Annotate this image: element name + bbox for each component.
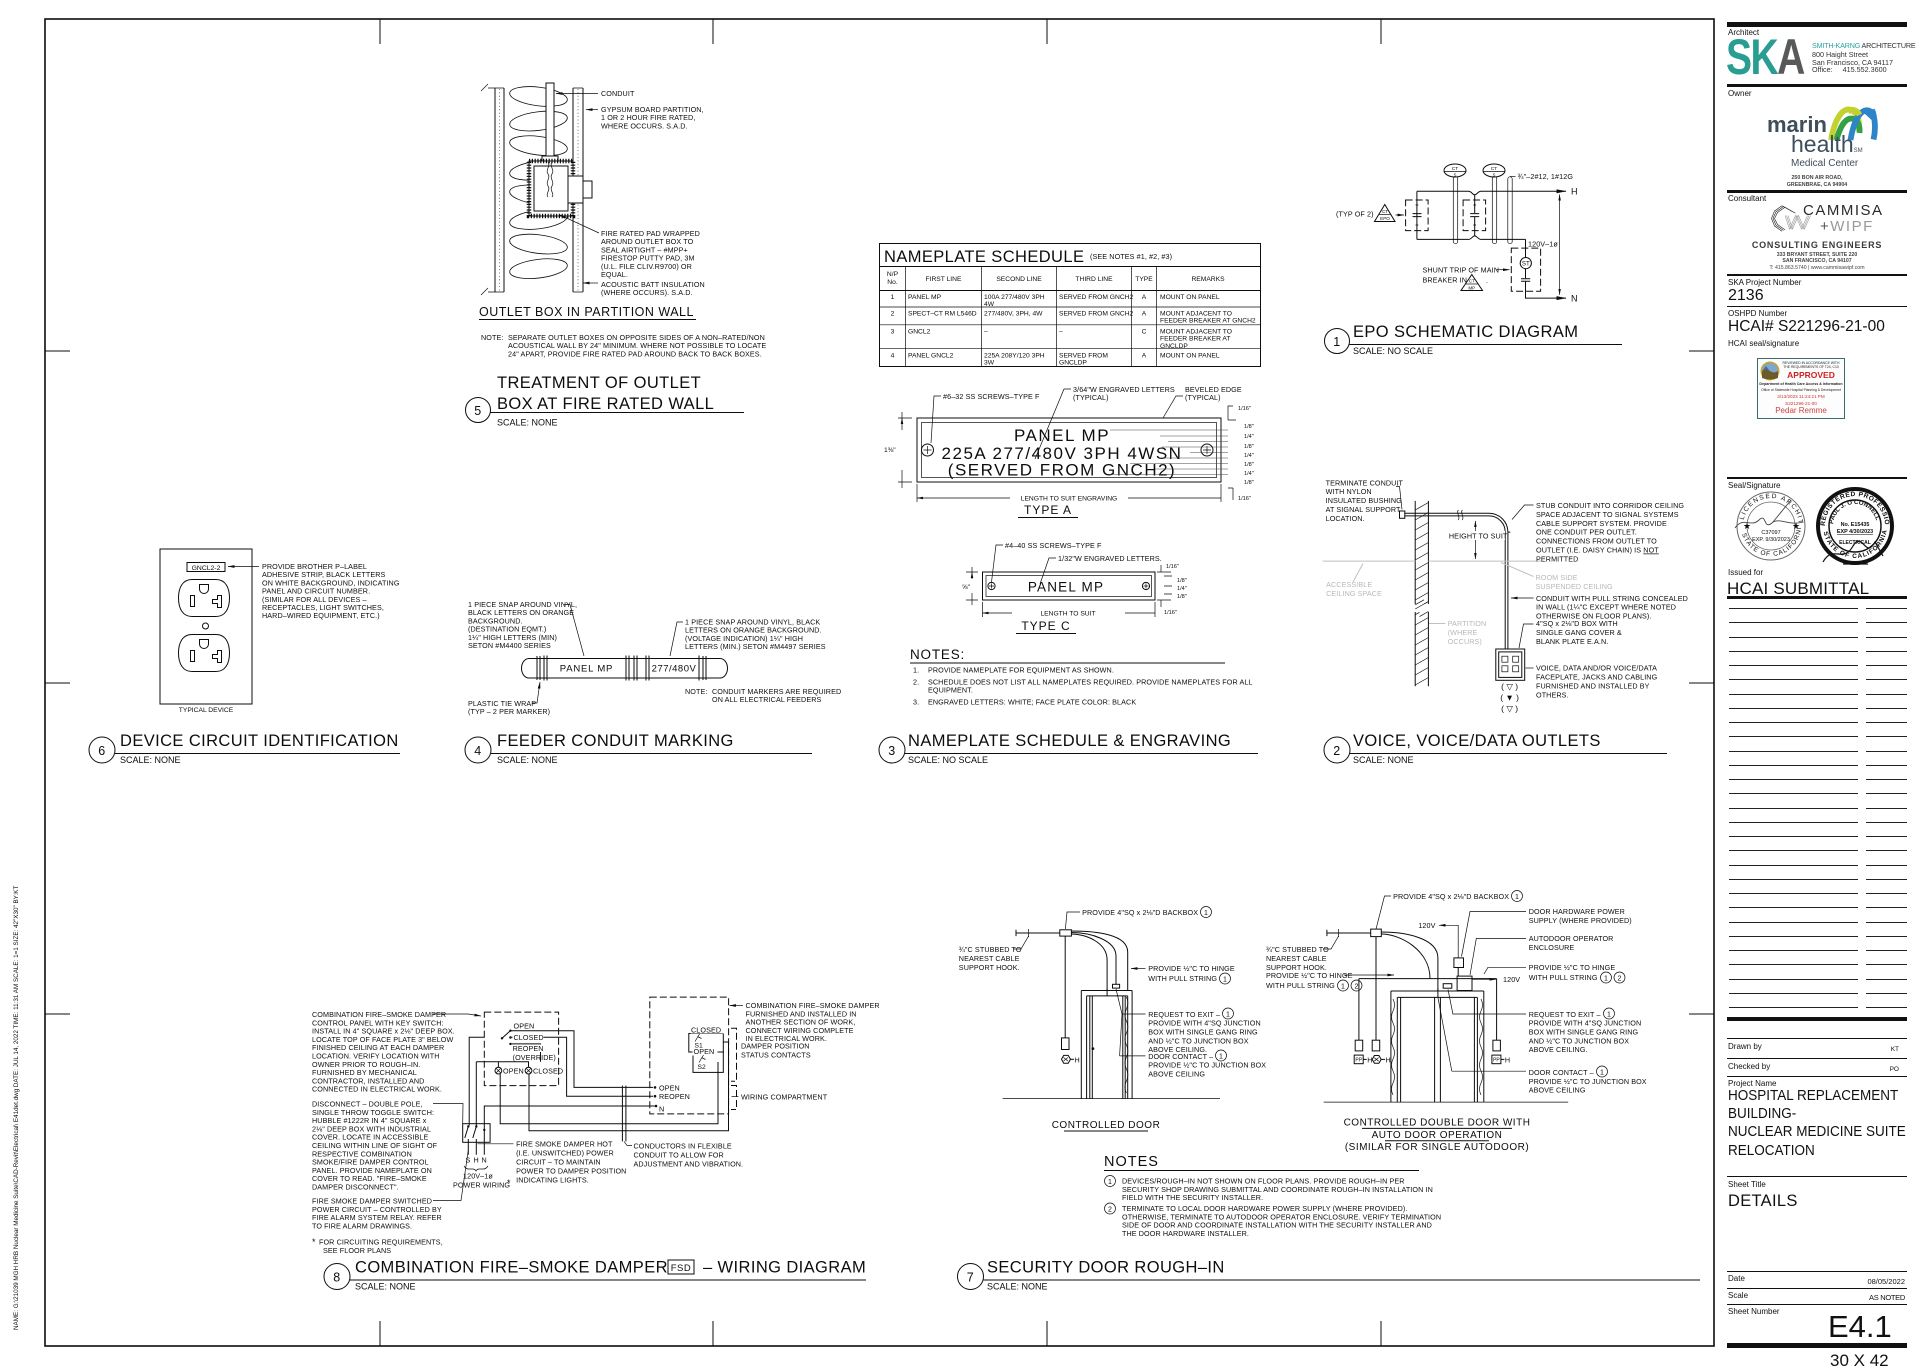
svg-text:CONNECTIONS FROM OUTLET TO: CONNECTIONS FROM OUTLET TO — [1536, 537, 1657, 546]
svg-text:WITH PULL STRING: WITH PULL STRING — [1529, 973, 1598, 982]
revision rows — [1725, 0, 1909, 1]
svg-text:PROVIDE WITH 4"SQ JUNCTION: PROVIDE WITH 4"SQ JUNCTION — [1148, 1019, 1261, 1028]
svg-text:SCALE: NONE: SCALE: NONE — [497, 418, 558, 428]
svg-text:EPO: EPO — [1380, 216, 1390, 221]
disconnect box — [463, 1124, 490, 1143]
svg-text:(SEE NOTES #1, #2, #3): (SEE NOTES #1, #2, #3) — [1090, 252, 1172, 261]
svg-text:225A 208Y/120 3PH: 225A 208Y/120 3PH — [984, 353, 1045, 360]
wire to N — [1526, 281, 1567, 298]
svg-text:FSD: FSD — [671, 1263, 692, 1274]
svg-text:SCHEDULE DOES NOT LIST ALL NAM: SCHEDULE DOES NOT LIST ALL NAMEPLATES RE… — [928, 678, 1253, 687]
sheet title line — [1727, 1176, 1907, 1177]
svg-text:– WIRING DIAGRAM: – WIRING DIAGRAM — [703, 1259, 866, 1277]
security note 2 — [1105, 1203, 1116, 1214]
svg-text:¾"C STUBBED TO: ¾"C STUBBED TO — [1266, 945, 1329, 954]
wire down to reader — [1064, 936, 1066, 1038]
ST coil — [1520, 258, 1531, 269]
drawn by — [1728, 1042, 1762, 1051]
CT bell symbol 2 — [1483, 164, 1505, 178]
svg-text:( ▼ ): ( ▼ ) — [1500, 693, 1519, 703]
conduit drop from CT 2 — [1492, 177, 1496, 244]
engineer seal stamp — [1813, 484, 1897, 568]
svg-text:ABOVE CEILING: ABOVE CEILING — [1148, 1070, 1205, 1079]
key switch reopen contact — [509, 1043, 511, 1045]
svg-text:WITH NYLON: WITH NYLON — [1326, 487, 1372, 496]
svg-text:100A 277/480V 3PH: 100A 277/480V 3PH — [984, 294, 1045, 301]
svg-text:NAMEPLATE SCHEDULE: NAMEPLATE SCHEDULE — [884, 248, 1084, 266]
svg-text:ROOM SIDE: ROOM SIDE — [1536, 573, 1578, 582]
conduit — [542, 83, 558, 162]
svg-text:VOICE, VOICE/DATA OUTLETS: VOICE, VOICE/DATA OUTLETS — [1353, 732, 1601, 750]
svg-text:#4–40 SS SCREWS–TYPE F: #4–40 SS SCREWS–TYPE F — [1005, 541, 1102, 550]
ceiling line right (gray) — [1428, 560, 1544, 562]
gypsum board right layer — [573, 88, 583, 292]
schedule table frame — [880, 244, 1261, 367]
svg-text:BOX AT FIRE RATED WALL: BOX AT FIRE RATED WALL — [497, 395, 714, 413]
border fold tick right 1 — [1689, 350, 1714, 352]
svg-text:WITH PULL STRING: WITH PULL STRING — [1266, 981, 1335, 990]
svg-text:2: 2 — [1618, 975, 1622, 982]
EPO pushbutton station 1 (dashed box) — [1406, 200, 1429, 231]
svg-text:ST: ST — [1522, 261, 1530, 268]
DETAIL 4 : FEEDER CONDUIT MARKING — [465, 600, 841, 765]
detail 1 bubble — [1325, 329, 1350, 354]
svg-text:1/16": 1/16" — [1238, 496, 1251, 502]
svg-text:2.: 2. — [913, 678, 919, 687]
svg-text:TERMINATE CONDUIT: TERMINATE CONDUIT — [1326, 478, 1404, 487]
svg-text:¾"–2#12, 1#12G: ¾"–2#12, 1#12G — [1518, 172, 1574, 181]
svg-text:SCALE: NONE: SCALE: NONE — [1353, 755, 1414, 765]
svg-text:(WHERE OCCURS). S.A.D.: (WHERE OCCURS). S.A.D. — [601, 288, 693, 297]
svg-text:A: A — [1142, 294, 1147, 301]
ska project number label — [1728, 278, 1801, 287]
svg-text:A: A — [1142, 353, 1147, 360]
svg-text:6: 6 — [98, 744, 105, 758]
project number 2136 — [1728, 287, 1764, 305]
type A right fraction dims — [1238, 406, 1254, 502]
svg-text:(I.E. UNSWITCHED) POWER: (I.E. UNSWITCHED) POWER — [516, 1149, 614, 1158]
hinge pull box — [1113, 984, 1120, 988]
type C right fraction dims — [1164, 564, 1187, 616]
detail 6 bubble — [89, 737, 115, 763]
svg-text:GNCLDP: GNCLDP — [1160, 343, 1188, 350]
leader door contact right — [1452, 1070, 1526, 1072]
svg-text:4: 4 — [891, 353, 895, 360]
svg-text:FIRST LINE: FIRST LINE — [926, 276, 962, 283]
leader rex right — [1448, 990, 1526, 1015]
svg-text:SECOND LINE: SECOND LINE — [996, 276, 1042, 283]
DETAIL 3 : NAMEPLATE SCHEDULE & ENGRAVING — [879, 244, 1261, 766]
plastic tie wrap left — [537, 656, 540, 680]
wall top edge caps — [481, 84, 583, 91]
H wire (top) — [1417, 190, 1566, 192]
N wire long — [484, 1106, 654, 1155]
svg-text:CONDUIT TO ALLOW FOR: CONDUIT TO ALLOW FOR — [634, 1150, 724, 1159]
svg-text:1/16": 1/16" — [1238, 406, 1251, 412]
leader door contact — [1120, 1055, 1146, 1057]
svg-text:AUTODOOR OPERATOR: AUTODOOR OPERATOR — [1529, 934, 1614, 943]
svg-text:1: 1 — [1600, 1069, 1604, 1076]
120V feed left arrow — [1439, 925, 1458, 958]
svg-text:8: 8 — [333, 1271, 340, 1285]
svg-text:OCCURS): OCCURS) — [1448, 637, 1482, 646]
EPO contact 2 wire — [1474, 195, 1476, 236]
bottom bar — [1727, 1343, 1907, 1348]
damper dashed enclosure — [650, 997, 729, 1114]
svg-text:ENCLOSURE: ENCLOSURE — [1529, 943, 1575, 952]
svg-text:SINGLE GANG COVER &: SINGLE GANG COVER & — [1536, 628, 1622, 637]
svg-text:1/16": 1/16" — [1166, 564, 1179, 570]
leader switched power — [433, 1150, 468, 1201]
leader to voltage label — [670, 622, 683, 656]
DETAIL 7 : SECURITY DOOR ROUGH-IN — [958, 891, 1701, 1292]
svg-text:120V: 120V — [1503, 975, 1520, 984]
svg-text:1/16": 1/16" — [1164, 610, 1177, 616]
svg-text:TO FIRE ALARM DRAWINGS.: TO FIRE ALARM DRAWINGS. — [312, 1221, 412, 1230]
title block top bar — [1727, 22, 1907, 27]
leader combination damper — [730, 1005, 744, 1007]
svg-text:2: 2 — [1108, 1206, 1112, 1213]
type C length dim — [983, 602, 1156, 617]
svg-text:1: 1 — [1333, 335, 1340, 349]
svg-text:EXP. 9/30/2023: EXP. 9/30/2023 — [1752, 537, 1790, 543]
svg-text:CIRCUIT – TO MAINTAIN: CIRCUIT – TO MAINTAIN — [516, 1158, 601, 1167]
sheet size — [1830, 1351, 1889, 1371]
svg-text:¾"C STUBBED TO: ¾"C STUBBED TO — [959, 945, 1022, 954]
svg-text:1: 1 — [1515, 894, 1519, 901]
partition wall hatched — [1415, 501, 1428, 686]
S1 contact box — [689, 1034, 724, 1053]
conduit elbow down — [1489, 513, 1510, 649]
outlet box — [1496, 649, 1525, 680]
svg-text:MOUNT ADJACENT TO: MOUNT ADJACENT TO — [1160, 311, 1232, 318]
svg-text:4W: 4W — [984, 301, 995, 308]
svg-text:7: 7 — [967, 1271, 974, 1285]
seal/signature line — [1727, 477, 1907, 479]
brace under SHN — [464, 1166, 488, 1171]
homerun label 3/4"-2#12, 1#12G — [1510, 176, 1516, 178]
svg-text:GNCL2-2: GNCL2-2 — [192, 565, 221, 572]
height to suit dim — [1474, 521, 1476, 559]
svg-text:1.: 1. — [913, 666, 919, 675]
svg-text:SPECT–CT RM L546D: SPECT–CT RM L546D — [908, 311, 977, 318]
svg-text:N: N — [1571, 294, 1578, 304]
leader: gypsum board — [586, 109, 598, 111]
bottom wire — [1417, 238, 1526, 240]
flexible conduit — [622, 1086, 626, 1142]
cammisa logo mark — [1770, 202, 1812, 235]
svg-text:NAMEPLATE SCHEDULE & ENGRAVING: NAMEPLATE SCHEDULE & ENGRAVING — [908, 732, 1231, 750]
svg-text:277/480V, 3PH, 4W: 277/480V, 3PH, 4W — [984, 311, 1043, 318]
sheet title label — [1728, 1180, 1766, 1189]
svg-text:INSULATED BUSHING: INSULATED BUSHING — [1326, 496, 1403, 505]
svg-text:1: 1 — [1226, 1011, 1230, 1018]
svg-text:EPO SCHEMATIC DIAGRAM: EPO SCHEMATIC DIAGRAM — [1353, 323, 1578, 341]
architect firm name — [1812, 41, 1915, 50]
S2 contact box — [693, 1052, 723, 1072]
svg-text:1⅜": 1⅜" — [884, 447, 896, 454]
svg-text:ON ALL ELECTRICAL FEEDERS: ON ALL ELECTRICAL FEEDERS — [712, 695, 822, 704]
nameplate type C plate — [983, 572, 1156, 600]
svg-text:H: H — [1505, 1055, 1510, 1064]
svg-text:REOPEN: REOPEN — [659, 1092, 690, 1101]
svg-text:NAME: G:\21039 MGH HRB Nuclear: NAME: G:\21039 MGH HRB Nuclear Medicine … — [13, 886, 20, 1330]
table title row line — [880, 266, 1261, 268]
svg-text:LENGTH TO SUIT ENGRAVING: LENGTH TO SUIT ENGRAVING — [1021, 496, 1118, 503]
svg-text:MOUNT ADJACENT TO: MOUNT ADJACENT TO — [1160, 329, 1232, 336]
svg-text:2: 2 — [891, 311, 895, 318]
leader 4sq box — [1519, 624, 1534, 648]
svg-text:BOX WITH SINGLE GANG RING: BOX WITH SINGLE GANG RING — [1148, 1028, 1258, 1037]
type A engraving height leader lines — [1110, 430, 1228, 475]
date line — [1727, 1271, 1907, 1272]
seal/signature label — [1728, 481, 1780, 490]
backbox wire to cr — [1375, 937, 1377, 1041]
svg-text:MOUNT ON PANEL: MOUNT ON PANEL — [1160, 294, 1220, 301]
svg-text:.: . — [1486, 278, 1488, 285]
wire down to shunt trip — [1525, 239, 1527, 257]
svg-text:FIRE SMOKE DAMPER HOT: FIRE SMOKE DAMPER HOT — [516, 1140, 613, 1149]
svg-text:DOOR CONTACT –: DOOR CONTACT – — [1529, 1068, 1594, 1077]
door frame right jamb — [1128, 991, 1132, 1099]
svg-text:#6–32 SS SCREWS–TYPE F: #6–32 SS SCREWS–TYPE F — [943, 392, 1040, 401]
svg-text:INDICATING LIGHTS.: INDICATING LIGHTS. — [516, 1175, 589, 1184]
wire below ST — [1525, 269, 1527, 279]
backbox wire to door top — [1381, 932, 1438, 991]
left pp drop — [1358, 979, 1360, 1041]
svg-text:PROVIDE ½"C TO HINGE: PROVIDE ½"C TO HINGE — [1148, 964, 1235, 973]
switched wire disconnect to lights — [475, 1062, 477, 1126]
svg-text:SCALE: NONE: SCALE: NONE — [987, 1282, 1048, 1292]
EPO contact 2 — [1470, 214, 1479, 217]
long wire bottom 2 — [529, 1042, 729, 1131]
svg-text:CT: CT — [1491, 166, 1497, 172]
svg-text:H: H — [1571, 187, 1578, 197]
svg-text:OPEN: OPEN — [659, 1083, 680, 1092]
svg-text:OTHERS.: OTHERS. — [1536, 690, 1569, 699]
detail 3 bubble — [879, 737, 905, 763]
hinge squiggle — [1125, 997, 1128, 1093]
S1 closed switch — [691, 1026, 725, 1034]
svg-text:CT: CT — [1382, 209, 1388, 214]
DETAIL 8 : COMBINATION FIRE-SMOKE DAMPER WIRING DIAGRAM — [312, 997, 880, 1291]
leader to ST box — [1497, 269, 1510, 271]
indicator light open — [495, 1066, 524, 1075]
svg-text:LENGTH TO SUIT: LENGTH TO SUIT — [1040, 611, 1095, 618]
svg-text:SEE FLOOR PLANS: SEE FLOOR PLANS — [323, 1246, 391, 1255]
conduit stub to cable hook — [1016, 930, 1060, 936]
svg-text:EXP 4/30/2023: EXP 4/30/2023 — [1837, 529, 1873, 535]
svg-text:N: N — [482, 1156, 487, 1165]
consultant label — [1728, 194, 1766, 203]
rex tick at door top — [1106, 989, 1108, 996]
svg-text:N/P: N/P — [887, 271, 899, 278]
svg-text:–: – — [984, 329, 988, 336]
svg-text:STUB CONDUIT INTO CORRIDOR CEI: STUB CONDUIT INTO CORRIDOR CEILING — [1536, 501, 1684, 510]
type A screw left — [922, 444, 934, 456]
horizontal conduit at structure — [1405, 513, 1489, 516]
svg-text:No. E15435: No. E15435 — [1841, 522, 1870, 528]
border fold tick left 2 — [45, 682, 70, 684]
shunt trip dashed box — [1511, 248, 1540, 291]
svg-text:*: * — [312, 1237, 316, 1247]
drawn by top line — [1727, 1038, 1907, 1039]
svg-text:No.: No. — [887, 279, 898, 286]
svg-text:4: 4 — [474, 744, 481, 758]
svg-text:SERVED FROM GNCH2: SERVED FROM GNCH2 — [1059, 294, 1133, 301]
svg-text:1: 1 — [1604, 975, 1608, 982]
rex connector right — [1443, 984, 1452, 989]
border fold tick top 2 — [712, 19, 714, 44]
svg-text:3: 3 — [891, 329, 895, 336]
svg-text:1: 1 — [1108, 1179, 1112, 1186]
pp device left — [1355, 1040, 1363, 1051]
svg-text:1/8": 1/8" — [1177, 578, 1187, 584]
svg-text:CT: CT — [1452, 166, 1458, 172]
svg-text:WIRING COMPARTMENT: WIRING COMPARTMENT — [741, 1093, 828, 1102]
marker: panel mp label — [544, 656, 629, 681]
door hardware power supply box — [1454, 958, 1464, 968]
key switch arm — [502, 1031, 510, 1038]
conduit break on vertical — [1503, 665, 1513, 670]
svg-text:S: S — [1493, 173, 1496, 178]
leader backbox — [1065, 912, 1080, 929]
svg-text:CONTROLLED DOOR: CONTROLLED DOOR — [1052, 1120, 1161, 1131]
svg-text:PANEL GNCL2: PANEL GNCL2 — [908, 353, 954, 360]
svg-text:CONTROLLED DOUBLE DOOR WITH: CONTROLLED DOUBLE DOOR WITH — [1344, 1117, 1531, 1128]
EPO contact 1 — [1413, 214, 1422, 217]
leader terminate conduit — [1396, 487, 1402, 510]
type C screw left — [988, 582, 995, 589]
consultant section bar — [1727, 190, 1907, 193]
hinge squiggle left jamb — [1392, 999, 1395, 1095]
svg-text:A: A — [1142, 311, 1147, 318]
svg-text:ADJUSTMENT AND VIBRATION.: ADJUSTMENT AND VIBRATION. — [634, 1159, 744, 1168]
svg-text:PROVIDE ½"C TO JUNCTION BOX: PROVIDE ½"C TO JUNCTION BOX — [1148, 1061, 1266, 1070]
svg-text:PROVIDE ½"C TO HINGE: PROVIDE ½"C TO HINGE — [1266, 971, 1353, 980]
coil capacitor mark — [1521, 279, 1530, 282]
cr device — [1372, 1040, 1380, 1051]
wiring compartment bracket — [731, 1086, 737, 1110]
leader conductors flexible — [624, 1141, 632, 1145]
svg-text:VOICE, DATA AND/OR VOICE/DATA: VOICE, DATA AND/OR VOICE/DATA — [1536, 664, 1657, 673]
type C screw right — [1142, 582, 1149, 589]
backbox wire to feed — [1381, 934, 1430, 979]
svg-text:PANEL MP: PANEL MP — [560, 664, 613, 675]
wire closed to damper — [512, 1037, 654, 1096]
leader faceplate — [1526, 667, 1534, 669]
svg-text:CLOSED: CLOSED — [514, 1033, 544, 1042]
svg-text:NEAREST CABLE: NEAREST CABLE — [959, 954, 1020, 963]
svg-text:TYPE: TYPE — [1135, 276, 1153, 283]
DETAIL 6 : DEVICE CIRCUIT IDENTIFICATION — [89, 549, 400, 765]
consulting engineers — [1725, 240, 1909, 250]
EPO pushbutton station 2 (dashed box) — [1463, 200, 1486, 231]
damper terminal N — [655, 1105, 658, 1108]
border fold tick top 4 — [1380, 19, 1382, 44]
bottom notch — [1469, 236, 1482, 240]
leader pull string — [1511, 597, 1534, 599]
svg-text:S2: S2 — [698, 1064, 706, 1071]
svg-text:AUTO DOOR OPERATION: AUTO DOOR OPERATION — [1372, 1130, 1503, 1141]
svg-text:LOCATION.: LOCATION. — [1326, 514, 1365, 523]
pp device right — [1493, 1040, 1501, 1051]
border fold tick top 1 — [379, 19, 381, 44]
svg-text:AT SIGNAL SUPPORT: AT SIGNAL SUPPORT — [1326, 505, 1401, 514]
damper position contacts bracket — [731, 1028, 737, 1081]
conduit with homerun label — [1508, 177, 1512, 244]
svg-text:(SIMILAR FOR SINGLE AUTODOOR): (SIMILAR FOR SINGLE AUTODOOR) — [1345, 1142, 1529, 1153]
120V right arrow — [1472, 978, 1496, 980]
EPO loop left edge — [1416, 191, 1418, 239]
architect address — [1812, 51, 1893, 74]
svg-text:(TYP OF 2): (TYP OF 2) — [1336, 210, 1374, 219]
svg-text:ENGRAVED LETTERS: WHITE; FAC: ENGRAVED LETTERS: WHITE; FACE PLATE COLO… — [928, 698, 1136, 707]
wall bottom edge caps — [481, 288, 583, 295]
svg-text:CONDUCTORS IN FLEXIBLE: CONDUCTORS IN FLEXIBLE — [634, 1142, 732, 1151]
plastic tie wrap right — [703, 656, 706, 680]
detail 5 bubble — [466, 398, 491, 423]
svg-text:5: 5 — [474, 404, 481, 418]
indicator light closed — [525, 1066, 563, 1075]
marinhealth wordmark — [1767, 112, 1827, 138]
svg-text:H: H — [1386, 1055, 1391, 1064]
svg-text:THIRD LINE: THIRD LINE — [1075, 276, 1113, 283]
svg-text:SPACE ADJACENT TO SIGNAL SYSTE: SPACE ADJACENT TO SIGNAL SYSTEMS — [1536, 510, 1679, 519]
svg-text:SERVED FROM: SERVED FROM — [1059, 353, 1108, 360]
svg-text:ABOVE CEILING.: ABOVE CEILING. — [1529, 1045, 1588, 1054]
date label — [1728, 1274, 1745, 1283]
hcai seal label — [1728, 339, 1799, 348]
svg-text:WITH PULL STRING: WITH PULL STRING — [1148, 974, 1217, 983]
svg-text:DEVICE CIRCUIT IDENTIFICATION: DEVICE CIRCUIT IDENTIFICATION — [120, 732, 399, 750]
svg-text:FURNISHED AND INSTALLED BY: FURNISHED AND INSTALLED BY — [1536, 681, 1650, 690]
owner label — [1728, 89, 1752, 98]
svg-text:IN WALL (1¼"C EXCEPT WHERE NOT: IN WALL (1¼"C EXCEPT WHERE NOTED — [1536, 603, 1676, 612]
svg-text:DAMPER DISCONNECT".: DAMPER DISCONNECT". — [312, 1183, 399, 1192]
double door head — [1391, 991, 1484, 997]
svg-text:NEAREST CABLE: NEAREST CABLE — [1266, 954, 1327, 963]
security note 1 — [1105, 1176, 1116, 1187]
leader: conduit — [556, 93, 598, 95]
marinhealth logo arcs — [1828, 101, 1878, 141]
svg-text:SCALE: NONE: SCALE: NONE — [120, 755, 181, 765]
svg-text:1/32"W ENGRAVED LETTERS.: 1/32"W ENGRAVED LETTERS. — [1058, 554, 1162, 563]
door frame head — [1081, 991, 1132, 996]
acoustic batt insulation squiggle — [509, 84, 569, 282]
leader from keynote to EPO 1 — [1396, 214, 1405, 216]
scale label — [1728, 1291, 1748, 1300]
conduit drop from CT 1 — [1453, 177, 1457, 244]
svg-text:DAMPER POSITION: DAMPER POSITION — [741, 1042, 810, 1051]
svg-text:CABLE SUPPORT SYSTEM. PROVIDE: CABLE SUPPORT SYSTEM. PROVIDE — [1536, 519, 1667, 528]
svg-text:(TYP – 2 PER MARKER): (TYP – 2 PER MARKER) — [468, 707, 550, 716]
svg-text:FIELD WITH THE SECURITY INSTAL: FIELD WITH THE SECURITY INSTALLER. — [1122, 1193, 1263, 1202]
svg-text:SERVED FROM GNCH2: SERVED FROM GNCH2 — [1059, 311, 1133, 318]
type A length dim — [917, 484, 1221, 502]
svg-text:PROVIDE 4"SQ x 2⅛"D BACKBOX: PROVIDE 4"SQ x 2⅛"D BACKBOX — [1082, 908, 1198, 917]
card reader hex symbol — [1062, 1055, 1080, 1064]
detail 7 bubble — [958, 1264, 984, 1290]
backbox 2 — [1371, 929, 1382, 937]
svg-text:H: H — [1075, 1055, 1080, 1064]
svg-text:DOOR HARDWARE POWER: DOOR HARDWARE POWER — [1529, 907, 1625, 916]
svg-text:*: * — [507, 1178, 511, 1188]
svg-text:FEEDER BREAKER AT: FEEDER BREAKER AT — [1160, 336, 1230, 343]
cammisa wordmark — [1803, 202, 1884, 219]
circuit label GNCL2-2 — [187, 563, 225, 572]
svg-text:SHUNT TRIP OF MAIN: SHUNT TRIP OF MAIN — [1423, 266, 1499, 275]
